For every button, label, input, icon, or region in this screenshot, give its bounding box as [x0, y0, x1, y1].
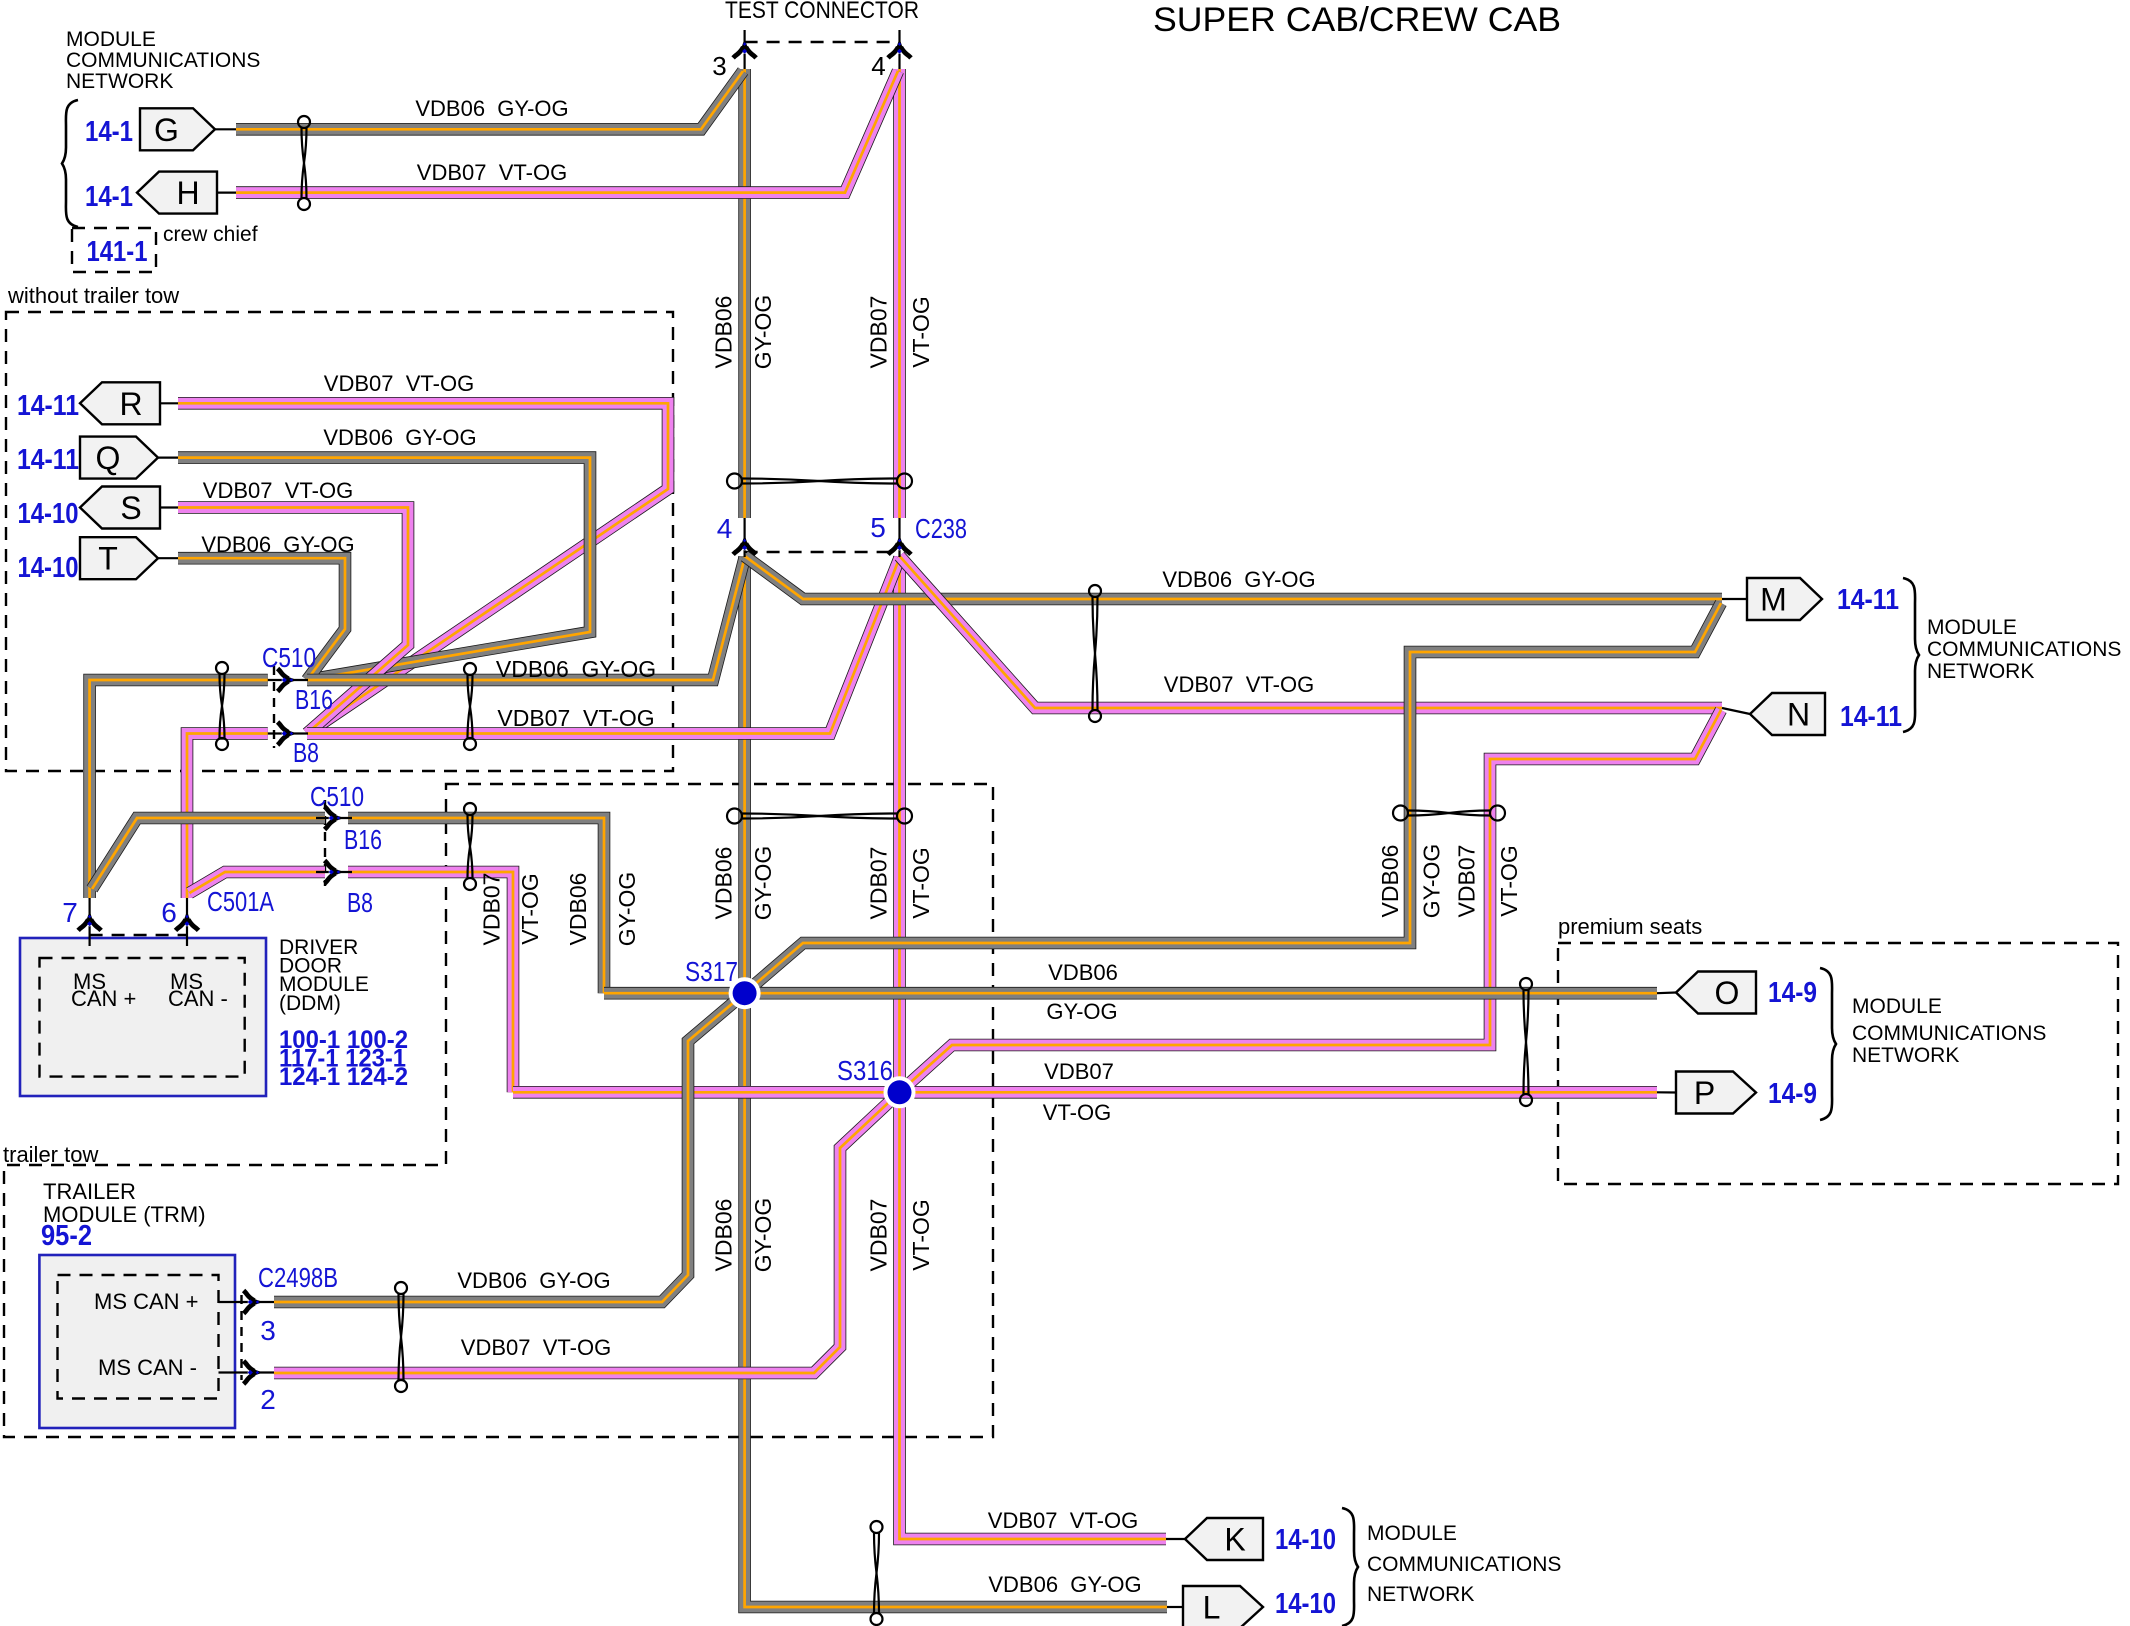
svg-text:GY-OG: GY-OG: [614, 872, 640, 947]
wire C510 B16 to DDM pin 7: [90, 680, 268, 898]
svg-text:14-9: 14-9: [1768, 977, 1817, 1009]
tag O: [1676, 972, 1756, 1014]
bus VDB07 upper segment: [893, 69, 906, 518]
tag R: [80, 382, 160, 424]
svg-text:VDB06: VDB06: [1048, 960, 1118, 985]
twisted pair K/L: [871, 1521, 883, 1625]
svg-text:14-1: 14-1: [85, 181, 133, 213]
wire C510 lower B16 left merge: [92, 818, 325, 889]
lead C501A pin 7: [88, 898, 90, 946]
svg-text:NETWORK: NETWORK: [1927, 660, 2034, 683]
wire G VDB06 GY-OG: [236, 71, 743, 129]
svg-text:T: T: [98, 541, 118, 577]
svg-text:COMMUNICATIONS: COMMUNICATIONS: [1927, 638, 2121, 661]
wire C510 lower B8 left merge: [190, 872, 326, 893]
pin 4 arrow TEST CONNECTOR: [888, 39, 911, 58]
pin 3 arrow TEST CONNECTOR: [733, 39, 756, 58]
svg-text:C2498B: C2498B: [258, 1262, 338, 1293]
bus VDB06 lower segment + wire to L: [745, 556, 1167, 1607]
wire C510 lower B8 down to S316 row: [348, 872, 513, 1092]
svg-text:GY-OG: GY-OG: [750, 1198, 776, 1273]
svg-text:crew chief: crew chief: [163, 223, 258, 246]
svg-text:VDB07 VT-OG: VDB07 VT-OG: [461, 1335, 611, 1360]
twisted pair G/H: [298, 116, 310, 210]
svg-text:3: 3: [260, 1315, 276, 1346]
pin 4 arrow C238: [733, 535, 756, 554]
twisted pair C510 right: [464, 663, 476, 750]
svg-text:14-10: 14-10: [1275, 1524, 1336, 1556]
svg-text:S316: S316: [837, 1055, 893, 1086]
lead C2498B pin 3: [219, 1301, 275, 1303]
brace O/P group: [1820, 968, 1836, 1120]
svg-text:NETWORK: NETWORK: [1367, 1583, 1474, 1606]
svg-text:(DDM): (DDM): [279, 992, 341, 1015]
lead tag L: [1167, 1606, 1183, 1608]
module box TRM: [39, 1255, 235, 1428]
svg-text:VDB06 GY-OG: VDB06 GY-OG: [201, 532, 354, 557]
svg-text:VDB07: VDB07: [1454, 845, 1480, 918]
lead tag K: [1166, 1538, 1185, 1540]
svg-text:95-2: 95-2: [41, 1220, 92, 1252]
pin B16 arrow C510 lower: [325, 807, 344, 830]
svg-text:14-11: 14-11: [1837, 584, 1899, 616]
twisted pair O/P: [1520, 978, 1532, 1106]
tag G: [140, 108, 215, 150]
svg-text:GY-OG: GY-OG: [750, 846, 776, 921]
svg-text:MODULE: MODULE: [1367, 1522, 1457, 1545]
svg-text:C510: C510: [262, 642, 316, 673]
dashed box premium seats: [1558, 943, 2118, 1184]
wire S316 to TRM MS CAN -: [274, 1092, 900, 1373]
dashed line C510 lower: [324, 800, 326, 886]
tag K: [1185, 1518, 1263, 1560]
dashed box 141-1: [72, 228, 156, 272]
lead tag P: [1657, 1091, 1676, 1093]
tag Q: [80, 437, 158, 479]
wire C238 pin5 to N: [900, 556, 1723, 708]
svg-text:VDB06 GY-OG: VDB06 GY-OG: [496, 656, 656, 682]
brace G/H group: [62, 100, 78, 227]
dashed line TEST CONNECTOR: [745, 41, 900, 43]
lead tag N: [1722, 708, 1750, 714]
lead C510 lower B8: [316, 871, 352, 873]
lead tag T: [158, 557, 178, 559]
bus VDB07 lower segment + wire to K: [900, 556, 1167, 1539]
svg-text:GY-OG: GY-OG: [1046, 999, 1117, 1024]
dashed box TRM internals: [58, 1275, 219, 1399]
svg-text:VT-OG: VT-OG: [517, 873, 543, 945]
svg-text:GY-OG: GY-OG: [750, 295, 776, 370]
wire S316 to N branch: [900, 710, 1722, 1092]
dashed line C501A: [90, 934, 187, 936]
lead tag Q: [158, 457, 178, 459]
svg-text:141-1: 141-1: [87, 236, 148, 268]
svg-text:SUPER CAB/CREW CAB: SUPER CAB/CREW CAB: [1153, 1, 1561, 39]
lead C238 pin 4: [743, 518, 745, 557]
svg-text:COMMUNICATIONS: COMMUNICATIONS: [1852, 1022, 2046, 1045]
pin B8 arrow C510: [278, 722, 297, 745]
dashed line C510: [273, 666, 275, 748]
svg-text:COMMUNICATIONS: COMMUNICATIONS: [1367, 1553, 1561, 1576]
svg-text:H: H: [176, 175, 199, 211]
lead tag O: [1657, 991, 1676, 994]
brace M/N group: [1903, 578, 1919, 732]
tag S: [80, 487, 160, 529]
svg-text:4: 4: [871, 51, 885, 81]
svg-text:3: 3: [712, 51, 726, 81]
svg-text:B8: B8: [293, 737, 319, 768]
module box DDM: [20, 938, 266, 1096]
svg-text:14-10: 14-10: [18, 498, 79, 530]
tag P: [1676, 1072, 1756, 1114]
lead tag G: [215, 128, 236, 130]
svg-text:premium seats: premium seats: [1558, 914, 1702, 939]
dashed line C2498B: [240, 1295, 242, 1380]
svg-text:P: P: [1694, 1075, 1715, 1111]
svg-text:VDB07 VT-OG: VDB07 VT-OG: [1164, 672, 1314, 697]
lead tag S: [160, 506, 178, 508]
svg-text:NETWORK: NETWORK: [1852, 1044, 1959, 1067]
svg-text:VDB06: VDB06: [711, 1199, 737, 1272]
twisted pair C510 lower right: [464, 803, 476, 890]
svg-text:NETWORK: NETWORK: [66, 70, 173, 93]
wire S317 to TRM MS CAN +: [274, 993, 745, 1302]
svg-text:B16: B16: [344, 824, 382, 855]
tag L: [1183, 1586, 1263, 1626]
splice S317: [729, 977, 761, 1009]
brace K/L group: [1342, 1508, 1358, 1626]
svg-text:K: K: [1224, 1522, 1245, 1558]
svg-text:O: O: [1715, 975, 1740, 1011]
wire C510 lower B16 down to S317 row: [348, 818, 604, 993]
wire C510 B8 to C238 pin 5: [307, 558, 900, 734]
lead C510 B8: [268, 732, 308, 734]
svg-text:VDB06 GY-OG: VDB06 GY-OG: [988, 1572, 1141, 1597]
lead C238 pin 5: [898, 518, 900, 557]
pin 2 arrow C2498B: [244, 1361, 263, 1384]
svg-text:VDB07 VT-OG: VDB07 VT-OG: [417, 160, 567, 185]
pin 3 arrow C2498B: [244, 1291, 263, 1314]
svg-text:124-1 124-2: 124-1 124-2: [279, 1063, 408, 1091]
lead tag R: [160, 402, 178, 404]
svg-text:VT-OG: VT-OG: [908, 1199, 934, 1271]
twisted pair M/N: [1089, 585, 1101, 722]
twisted pair bus upper: [727, 474, 912, 489]
wire S317 to M branch: [745, 603, 1721, 993]
svg-text:VDB06: VDB06: [1377, 845, 1403, 918]
wire Q VDB06 GY-OG: [178, 458, 590, 680]
pin 7 arrow C501A: [78, 911, 101, 930]
svg-text:14-11: 14-11: [1840, 701, 1902, 733]
svg-text:6: 6: [161, 897, 177, 928]
svg-text:VDB06 GY-OG: VDB06 GY-OG: [457, 1268, 610, 1293]
svg-text:2: 2: [260, 1384, 276, 1415]
svg-text:MODULE: MODULE: [1927, 616, 2017, 639]
svg-text:MS CAN +: MS CAN +: [94, 1289, 199, 1314]
wire T VDB06 GY-OG: [178, 558, 345, 680]
svg-text:R: R: [119, 386, 142, 422]
svg-text:14-10: 14-10: [1275, 1588, 1336, 1620]
svg-text:VT-OG: VT-OG: [908, 296, 934, 368]
twisted pair bus mid: [727, 809, 912, 824]
svg-text:VDB07: VDB07: [866, 847, 892, 920]
svg-text:14-10: 14-10: [18, 552, 79, 584]
svg-text:trailer tow: trailer tow: [3, 1142, 98, 1167]
svg-text:B16: B16: [295, 684, 333, 715]
bus VDB06 upper segment: [738, 69, 751, 518]
svg-text:4: 4: [717, 513, 733, 544]
svg-text:VDB07: VDB07: [866, 1199, 892, 1272]
tag H: [137, 172, 217, 214]
tag T: [80, 537, 158, 579]
svg-text:B8: B8: [347, 887, 373, 918]
svg-text:CAN -: CAN -: [168, 986, 228, 1011]
dashed box DDM internals: [40, 958, 245, 1077]
svg-text:VDB06: VDB06: [565, 873, 591, 946]
svg-text:S: S: [120, 490, 141, 526]
lead C510 B16: [268, 679, 308, 681]
pin B16 arrow C510: [278, 669, 297, 692]
svg-text:C501A: C501A: [207, 886, 274, 917]
svg-text:GY-OG: GY-OG: [1419, 844, 1445, 919]
svg-text:VDB06 GY-OG: VDB06 GY-OG: [415, 96, 568, 121]
svg-text:S317: S317: [685, 956, 738, 987]
pin 5 arrow C238: [888, 535, 911, 554]
svg-text:5: 5: [870, 512, 886, 543]
lead tag M: [1722, 598, 1747, 600]
wire C510 B8 to DDM pin 6: [187, 734, 268, 899]
lead C2498B pin 2: [219, 1371, 275, 1373]
lead test pin 3: [743, 30, 745, 69]
wire H VDB07 VT-OG: [236, 71, 898, 193]
pin 6 arrow C501A: [176, 911, 199, 930]
svg-text:VDB07 VT-OG: VDB07 VT-OG: [324, 371, 474, 396]
svg-text:VDB07 VT-OG: VDB07 VT-OG: [988, 1508, 1138, 1533]
lead test pin 4: [898, 30, 900, 69]
svg-text:MODULE: MODULE: [1852, 995, 1942, 1018]
svg-text:C238: C238: [915, 513, 967, 544]
wire S VDB07 VT-OG: [178, 508, 408, 734]
wire R VDB07 VT-OG: [178, 403, 668, 733]
svg-text:VT-OG: VT-OG: [1043, 1100, 1111, 1125]
svg-text:TRAILER: TRAILER: [43, 1179, 136, 1204]
dashed line C238: [745, 551, 900, 553]
wire C238 pin4 to M: [745, 556, 1722, 599]
tag M: [1747, 578, 1822, 620]
svg-text:14-11: 14-11: [17, 390, 79, 422]
twisted pair M/N branch: [1393, 806, 1505, 821]
svg-text:G: G: [154, 112, 179, 148]
tag N: [1750, 693, 1825, 735]
svg-text:N: N: [1787, 697, 1810, 733]
wire S316 row to P: [513, 1086, 1657, 1099]
svg-text:without trailer tow: without trailer tow: [7, 283, 179, 308]
svg-text:M: M: [1760, 582, 1787, 618]
svg-text:MS CAN -: MS CAN -: [98, 1355, 197, 1380]
svg-text:VDB06: VDB06: [711, 847, 737, 920]
svg-text:COMMUNICATIONS: COMMUNICATIONS: [66, 49, 260, 72]
svg-text:VT-OG: VT-OG: [908, 847, 934, 919]
svg-text:VDB07: VDB07: [479, 873, 505, 946]
dashed box without trailer tow: [6, 312, 673, 771]
svg-text:VDB07: VDB07: [866, 296, 892, 369]
twisted pair TRM: [395, 1282, 407, 1392]
wire S317 row to O: [604, 987, 1657, 1000]
svg-text:C510: C510: [310, 781, 364, 812]
splice S316: [884, 1076, 916, 1108]
svg-text:VDB06 GY-OG: VDB06 GY-OG: [323, 425, 476, 450]
lead tag H: [217, 192, 236, 194]
svg-text:Q: Q: [96, 440, 121, 476]
svg-text:VDB06 GY-OG: VDB06 GY-OG: [1162, 567, 1315, 592]
svg-text:VDB06: VDB06: [711, 296, 737, 369]
pin B8 arrow C510 lower: [325, 861, 344, 884]
dashed box trailer tow region: [4, 784, 993, 1437]
svg-text:TEST CONNECTOR: TEST CONNECTOR: [725, 0, 919, 24]
lead C510 lower B16: [316, 817, 352, 819]
svg-text:VT-OG: VT-OG: [1496, 845, 1522, 917]
svg-text:VDB07 VT-OG: VDB07 VT-OG: [497, 705, 654, 731]
svg-text:MODULE: MODULE: [66, 28, 156, 51]
svg-text:VDB07 VT-OG: VDB07 VT-OG: [203, 478, 353, 503]
twisted pair C510 left: [216, 662, 228, 750]
svg-text:14-9: 14-9: [1768, 1078, 1817, 1110]
svg-text:VDB07: VDB07: [1044, 1059, 1114, 1084]
svg-text:14-11: 14-11: [17, 444, 79, 476]
svg-text:14-1: 14-1: [85, 116, 133, 148]
svg-text:L: L: [1203, 1590, 1221, 1626]
lead C501A pin 6: [186, 898, 188, 946]
svg-text:CAN +: CAN +: [71, 986, 136, 1011]
wire C510 B16 to C238 pin 4: [307, 558, 745, 680]
svg-text:7: 7: [62, 897, 78, 928]
